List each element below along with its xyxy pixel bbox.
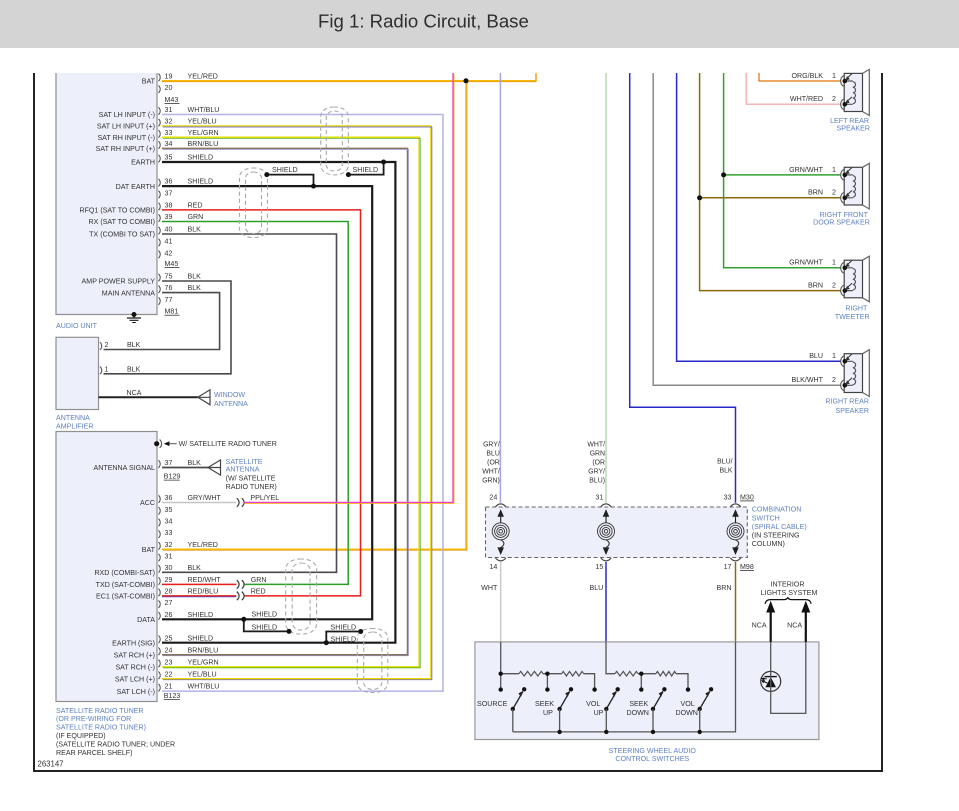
svg-text:22: 22	[165, 670, 173, 678]
tuner pin 28	[158, 589, 160, 597]
svg-text:BRN/BLU: BRN/BLU	[188, 646, 219, 654]
svg-text:B123: B123	[164, 692, 181, 700]
svg-text:SEEK: SEEK	[629, 700, 648, 708]
wire YEL/RED pin19 BAT	[162, 73, 536, 81]
wire GRY/WHT tuner pin36	[162, 502, 236, 504]
tuner pin 31	[158, 554, 160, 562]
svg-text:M81: M81	[165, 308, 179, 316]
junction YEL/RED	[464, 78, 469, 83]
shield tap row26 to capsule P	[244, 619, 289, 631]
tuner pin 35	[158, 507, 160, 515]
wire BLK pin75 to amp pin1	[104, 281, 232, 374]
shield capsule around pins38-40 inner	[246, 172, 262, 234]
svg-text:YEL/GRN: YEL/GRN	[188, 659, 219, 667]
wire ORG/BLK left rear spk pin1	[759, 73, 841, 81]
svg-text:SEEK: SEEK	[535, 700, 554, 708]
svg-text:36: 36	[165, 178, 173, 186]
junction shield tap capsule L	[264, 172, 269, 177]
svg-text:RED/BLU: RED/BLU	[188, 588, 219, 596]
svg-text:SAT RH INPUT (-): SAT RH INPUT (-)	[97, 134, 155, 142]
arrow NCA left	[770, 611, 772, 642]
amp pin 1	[100, 367, 102, 375]
switch VOL DOWN	[686, 687, 690, 691]
svg-text:DATA: DATA	[137, 616, 155, 624]
svg-text:WHT/BLU: WHT/BLU	[188, 683, 220, 691]
svg-text:INTERIOR: INTERIOR	[771, 581, 805, 589]
svg-text:RXD (COMBI-SAT): RXD (COMBI-SAT)	[94, 569, 155, 577]
svg-text:24: 24	[489, 493, 497, 501]
svg-text:23: 23	[165, 659, 173, 667]
svg-text:YEL/GRN: YEL/GRN	[188, 129, 219, 137]
shield capsule around rows28-30 inner	[292, 563, 310, 630]
svg-text:(OR: (OR	[592, 460, 605, 467]
svg-text:41: 41	[165, 238, 173, 246]
wire BRN branch rf door pin2	[700, 197, 841, 199]
svg-text:WHT/BLU: WHT/BLU	[188, 106, 220, 114]
junction rail 699.7	[698, 730, 702, 734]
tuner pin 32	[158, 542, 160, 550]
svg-text:GRN: GRN	[251, 576, 267, 584]
svg-text:MAIN ANTENNA: MAIN ANTENNA	[102, 289, 155, 297]
wire RED/WHT tuner pin29	[162, 583, 236, 585]
interior lights brace	[765, 597, 811, 604]
shield tap to pin35 wire	[348, 162, 383, 175]
svg-text:DOWN: DOWN	[626, 709, 648, 717]
wire interior lights U loop	[771, 642, 806, 714]
svg-text:34: 34	[165, 518, 173, 526]
svg-text:GRY/: GRY/	[588, 469, 605, 476]
wire BRN to tweeter pin2	[700, 73, 841, 291]
svg-text:36: 36	[165, 494, 173, 502]
svg-text:BLK: BLK	[188, 226, 202, 234]
wire BLU right rear spk pin1	[677, 73, 841, 361]
wire BLK/WHT right rear spk pin2	[653, 73, 841, 385]
svg-text:76: 76	[165, 284, 173, 292]
switch VOL UP	[592, 687, 596, 691]
svg-text:RIGHT: RIGHT	[845, 304, 868, 312]
tuner pin 24	[158, 648, 160, 656]
svg-text:BAT: BAT	[142, 546, 156, 554]
svg-text:BLK: BLK	[127, 341, 141, 349]
shield capsule around pins31-35 outer	[321, 107, 349, 175]
svg-text:VOL: VOL	[586, 700, 600, 708]
switch SEEK UP	[545, 687, 549, 691]
tuner pin 27	[158, 600, 160, 608]
tuner pin 26	[158, 612, 160, 620]
svg-text:YEL/RED: YEL/RED	[188, 72, 218, 80]
resistor R1	[519, 671, 543, 676]
wire WHT/RED left rear spk pin2	[746, 73, 841, 104]
svg-text:AMPLIFIER: AMPLIFIER	[56, 423, 93, 431]
right tweeter	[844, 260, 862, 298]
svg-text:RFQ1 (SAT TO COMBI): RFQ1 (SAT TO COMBI)	[79, 207, 155, 215]
svg-text:BLU: BLU	[589, 584, 603, 592]
svg-text:SAT LH INPUT (-): SAT LH INPUT (-)	[99, 111, 155, 119]
splice row28	[237, 592, 239, 601]
satellite radio tuner box	[56, 432, 157, 702]
junction pin36 wire	[311, 184, 316, 189]
bottom rail	[513, 642, 736, 732]
svg-text:(W/ SATELLITE: (W/ SATELLITE	[226, 475, 276, 483]
splice row36	[237, 498, 239, 507]
svg-text:31: 31	[165, 106, 173, 114]
wire RED pin38 to splice row28	[162, 210, 361, 596]
wire BLK pin40 to tuner pin30	[162, 234, 337, 572]
svg-text:263147: 263147	[38, 759, 64, 768]
right front door speaker	[844, 167, 862, 205]
svg-text:SWITCH: SWITCH	[752, 514, 780, 522]
svg-text:1: 1	[832, 259, 836, 267]
svg-text:1: 1	[832, 352, 836, 360]
audio pin 36	[158, 179, 160, 187]
svg-text:AMP POWER SUPPLY: AMP POWER SUPPLY	[82, 278, 156, 286]
junction capsule P tap	[287, 629, 292, 634]
wire SHIELD pin36 to tuner pin26	[162, 186, 372, 619]
svg-text:ACC: ACC	[140, 499, 155, 507]
svg-text:(IF EQUIPPED): (IF EQUIPPED)	[56, 732, 106, 740]
wire BRN M98 pin17	[735, 562, 737, 642]
svg-text:33: 33	[165, 529, 173, 537]
svg-text:DOWN: DOWN	[675, 709, 697, 717]
node w/ satellite radio tuner	[154, 441, 159, 446]
svg-text:SHIELD: SHIELD	[272, 166, 298, 174]
steering wheel switches box	[475, 642, 819, 740]
spiral cable pin 33-17	[730, 504, 740, 507]
svg-text:(SPIRAL CABLE): (SPIRAL CABLE)	[752, 523, 807, 531]
svg-text:PPL/YEL: PPL/YEL	[250, 494, 279, 502]
svg-text:M43: M43	[165, 96, 179, 104]
svg-text:(OR: (OR	[487, 460, 500, 467]
tuner pin 22	[158, 672, 160, 680]
svg-text:GRN): GRN)	[482, 478, 500, 485]
svg-text:RED/WHT: RED/WHT	[188, 576, 222, 584]
wire WHT M98 pin14	[500, 562, 502, 642]
svg-text:35: 35	[165, 154, 173, 162]
svg-text:SAT LH INPUT (+): SAT LH INPUT (+)	[97, 123, 155, 131]
amp pin 2	[100, 342, 102, 350]
junction row26 wire	[241, 617, 246, 622]
svg-text:DOOR SPEAKER: DOOR SPEAKER	[813, 218, 870, 226]
junction GRN/WHT	[721, 172, 726, 177]
svg-text:38: 38	[165, 202, 173, 210]
svg-text:WINDOW: WINDOW	[214, 391, 245, 399]
shield tap row25 to capsule Q	[326, 632, 360, 643]
svg-text:EARTH: EARTH	[131, 159, 155, 167]
svg-text:19: 19	[165, 72, 173, 80]
svg-text:M30: M30	[740, 493, 754, 501]
svg-text:37: 37	[165, 459, 173, 467]
wire NCA	[99, 396, 198, 398]
svg-text:BLK: BLK	[719, 468, 732, 475]
svg-text:UP: UP	[543, 709, 553, 717]
wire YEL/GRN pin33 to tuner pin23	[162, 137, 419, 667]
audio pin 77	[158, 297, 160, 305]
svg-text:33: 33	[724, 493, 732, 501]
wire RED/BLU tuner pin28	[162, 595, 236, 597]
junction rail 653	[651, 730, 655, 734]
svg-text:32: 32	[165, 118, 173, 126]
svg-text:15: 15	[595, 563, 603, 571]
svg-text:SHIELD: SHIELD	[188, 634, 214, 642]
svg-text:ANTENNA SIGNAL: ANTENNA SIGNAL	[94, 464, 156, 472]
svg-text:SPEAKER: SPEAKER	[836, 125, 870, 133]
audio pin 19	[158, 74, 160, 82]
svg-text:BLU: BLU	[809, 352, 823, 360]
resistor R4	[656, 671, 676, 676]
svg-text:GRN: GRN	[188, 213, 204, 221]
wire WHT/BLU pin31 to tuner pin21	[162, 115, 443, 692]
svg-text:SHIELD: SHIELD	[252, 623, 278, 631]
svg-text:BAT: BAT	[142, 78, 156, 86]
svg-text:SATELLITE: SATELLITE	[226, 458, 263, 466]
svg-text:AUDIO UNIT: AUDIO UNIT	[56, 322, 98, 330]
stub seek down contact	[640, 674, 642, 690]
svg-text:BLK: BLK	[188, 284, 202, 292]
tuner pin 34	[158, 519, 160, 527]
tuner pin 33	[158, 530, 160, 538]
svg-text:35: 35	[165, 506, 173, 514]
svg-text:SATELLITE RADIO TUNER): SATELLITE RADIO TUNER)	[56, 724, 146, 732]
junction rail 559.6	[557, 730, 561, 734]
svg-text:WHT/RED: WHT/RED	[790, 95, 823, 103]
combination switch box	[486, 507, 748, 558]
wire BLK tuner pin37	[162, 467, 208, 469]
svg-text:(SATELLITE RADIO TUNER; UNDER: (SATELLITE RADIO TUNER; UNDER	[56, 740, 175, 748]
audio pin 34	[158, 141, 160, 149]
wire WHT inside box	[500, 642, 502, 690]
junction shield tap capsule M	[346, 172, 351, 177]
junction R1-R2	[545, 672, 549, 676]
tuner pin 23	[158, 660, 160, 668]
splice row29	[237, 580, 239, 589]
svg-text:34: 34	[165, 140, 173, 148]
shield capsule around rows21-25 outer	[357, 629, 388, 693]
switch SEEK DOWN	[639, 687, 643, 691]
svg-text:26: 26	[165, 611, 173, 619]
svg-text:STEERING WHEEL AUDIO: STEERING WHEEL AUDIO	[609, 747, 697, 755]
svg-text:39: 39	[165, 213, 173, 221]
svg-text:33: 33	[165, 129, 173, 137]
svg-text:ANTENNA: ANTENNA	[214, 400, 248, 408]
svg-text:17: 17	[724, 563, 732, 571]
tuner pin 37	[158, 460, 160, 468]
audio unit U1 box	[56, 73, 157, 315]
svg-text:75: 75	[165, 273, 173, 281]
audio pin 76	[158, 285, 160, 293]
junction WHT rail	[499, 672, 503, 676]
svg-text:NCA: NCA	[127, 389, 142, 397]
svg-text:SHIELD: SHIELD	[188, 154, 214, 162]
audio pin 37	[158, 191, 160, 199]
svg-text:2: 2	[105, 341, 109, 349]
resistor R2	[562, 671, 584, 676]
junction row25 wire	[324, 640, 329, 645]
switch SOURCE	[499, 687, 503, 691]
svg-text:SAT LCH (+): SAT LCH (+)	[115, 676, 155, 684]
title bar	[0, 0, 959, 48]
svg-text:NCA: NCA	[752, 622, 767, 630]
svg-text:2: 2	[832, 376, 836, 384]
audio pin 38	[158, 203, 160, 211]
audio pin 42	[158, 251, 160, 259]
svg-text:GRN/WHT: GRN/WHT	[789, 259, 824, 267]
antenna symbol satellite	[208, 460, 221, 475]
diagram frame border	[34, 73, 882, 771]
wire BLU/BLK to M30 pin33	[630, 73, 736, 503]
svg-text:RED: RED	[188, 202, 203, 210]
audio pin 41	[158, 239, 160, 247]
svg-text:SAT LCH (-): SAT LCH (-)	[117, 688, 155, 696]
wire YEL/RED branch to tuner pin32	[162, 81, 466, 550]
svg-text:40: 40	[165, 226, 173, 234]
junction capsule Q tap	[358, 629, 363, 634]
svg-text:BRN: BRN	[808, 282, 823, 290]
svg-text:WHT: WHT	[481, 584, 498, 592]
svg-text:DAT EARTH: DAT EARTH	[116, 183, 155, 191]
svg-text:BRN: BRN	[808, 189, 823, 197]
svg-text:M45: M45	[165, 260, 179, 268]
svg-text:RED: RED	[251, 588, 266, 596]
svg-text:ANTENNA: ANTENNA	[226, 466, 260, 474]
svg-text:REAR PARCEL SHELF): REAR PARCEL SHELF)	[56, 749, 132, 757]
svg-text:SAT RCH (+): SAT RCH (+)	[114, 652, 155, 660]
wire WHT/GRN to M30 pin31	[605, 73, 607, 503]
svg-text:20: 20	[165, 84, 173, 92]
svg-text:BLK: BLK	[188, 459, 202, 467]
svg-text:SHIELD: SHIELD	[188, 611, 214, 619]
svg-text:27: 27	[165, 599, 173, 607]
svg-text:SHIELD: SHIELD	[331, 623, 357, 631]
shield capsule around rows21-25 inner	[364, 632, 382, 690]
svg-text:ORG/BLK: ORG/BLK	[791, 72, 823, 80]
svg-text:Fig 1: Radio Circuit, Base: Fig 1: Radio Circuit, Base	[318, 11, 529, 32]
diode lamp D1	[761, 671, 781, 691]
svg-text:24: 24	[165, 646, 173, 654]
tuner pin 30	[158, 565, 160, 573]
svg-text:SOURCE: SOURCE	[477, 700, 508, 708]
svg-text:21: 21	[165, 683, 173, 691]
svg-text:EARTH (SIG): EARTH (SIG)	[112, 639, 155, 647]
shield tap to pin36 wire	[267, 175, 314, 187]
audio pin 31	[158, 107, 160, 115]
svg-text:RX (SAT TO COMBI): RX (SAT TO COMBI)	[89, 218, 155, 226]
svg-text:14: 14	[489, 563, 497, 571]
svg-text:RADIO TUNER): RADIO TUNER)	[226, 483, 277, 491]
junction rail 606.3	[604, 730, 608, 734]
svg-text:BLU: BLU	[486, 451, 499, 458]
svg-text:25: 25	[165, 634, 173, 642]
tuner pin 21	[158, 684, 160, 692]
svg-text:TXD (SAT-COMBI): TXD (SAT-COMBI)	[96, 581, 155, 589]
svg-text:ANTENNA: ANTENNA	[56, 414, 90, 422]
svg-text:YEL/BLU: YEL/BLU	[188, 118, 217, 126]
antenna symbol window	[198, 390, 210, 405]
tuner pin 25	[158, 636, 160, 644]
svg-text:(IN STEERING: (IN STEERING	[752, 532, 800, 540]
svg-text:TWEETER: TWEETER	[835, 313, 870, 321]
svg-text:(OR PRE-WIRING FOR: (OR PRE-WIRING FOR	[56, 715, 131, 723]
svg-text:W/ SATELLITE RADIO TUNER: W/ SATELLITE RADIO TUNER	[179, 440, 277, 448]
spiral cable pin 24-14	[496, 504, 506, 507]
svg-text:TX (COMBI TO SAT): TX (COMBI TO SAT)	[89, 231, 155, 239]
stub seek up contact	[546, 674, 548, 690]
svg-text:37: 37	[165, 190, 173, 198]
shield capsule around pins38-40 outer	[240, 168, 268, 238]
svg-text:28: 28	[165, 588, 173, 596]
svg-text:BRN/BLU: BRN/BLU	[188, 140, 219, 148]
svg-text:SHIELD: SHIELD	[252, 611, 278, 619]
shield capsule around pins31-35 inner	[326, 111, 342, 171]
svg-text:GRN/WHT: GRN/WHT	[789, 166, 824, 174]
audio pin 32	[158, 119, 160, 127]
tuner pin 29	[158, 577, 160, 585]
svg-text:2: 2	[832, 189, 836, 197]
junction pin35 wire	[381, 160, 386, 165]
svg-text:SHIELD: SHIELD	[353, 166, 379, 174]
svg-text:BLK/WHT: BLK/WHT	[791, 376, 823, 384]
svg-text:29: 29	[165, 576, 173, 584]
svg-text:BLU): BLU)	[589, 478, 605, 485]
arrow NCA right	[805, 611, 807, 642]
wire GRN pin39 to splice row29	[162, 222, 348, 585]
svg-text:COLUMN): COLUMN)	[752, 540, 785, 548]
svg-text:1: 1	[832, 166, 836, 174]
svg-text:COMBINATION: COMBINATION	[752, 506, 802, 514]
audio pin 40	[158, 227, 160, 235]
svg-text:30: 30	[165, 564, 173, 572]
left rear speaker	[844, 73, 862, 111]
wire PPL/YEL	[244, 73, 454, 503]
svg-text:SPEAKER: SPEAKER	[835, 407, 869, 415]
svg-text:WHT/: WHT/	[587, 442, 605, 449]
svg-text:1: 1	[105, 365, 109, 373]
svg-text:BLK: BLK	[188, 564, 202, 572]
audio pin 33	[158, 130, 160, 138]
wire BRN/BLU pin34 to tuner pin24	[162, 148, 408, 654]
svg-text:NCA: NCA	[787, 622, 802, 630]
svg-text:UP: UP	[594, 709, 604, 717]
svg-text:CONTROL SWITCHES: CONTROL SWITCHES	[615, 755, 689, 763]
wire GRN/WHT to tweeter pin1	[724, 73, 841, 268]
svg-text:SAT RH INPUT (+): SAT RH INPUT (+)	[96, 145, 155, 153]
wire GRN/WHT branch rf door pin1	[724, 174, 841, 176]
audio pin 35	[158, 155, 160, 163]
svg-text:77: 77	[165, 296, 173, 304]
svg-text:SATELLITE RADIO TUNER: SATELLITE RADIO TUNER	[56, 707, 144, 715]
wire BLU inside box	[606, 642, 615, 674]
svg-text:2: 2	[832, 282, 836, 290]
audio pin 39	[158, 214, 160, 222]
svg-text:GRN: GRN	[590, 451, 605, 458]
svg-text:GRY/WHT: GRY/WHT	[188, 494, 222, 502]
svg-text:42: 42	[165, 249, 173, 257]
spiral cable pin 31-15	[601, 504, 611, 507]
audio pin 20	[158, 85, 160, 93]
svg-text:LIGHTS SYSTEM: LIGHTS SYSTEM	[761, 589, 818, 597]
wire GRY/BLU to M30 pin24	[499, 73, 501, 503]
svg-text:EC1 (SAT-COMBI): EC1 (SAT-COMBI)	[96, 593, 155, 601]
svg-text:YEL/BLU: YEL/BLU	[188, 670, 217, 678]
ground	[132, 312, 137, 317]
resistor R3	[615, 671, 638, 676]
wire BLK pin76 to amp pin2	[104, 293, 220, 350]
svg-text:BLK: BLK	[188, 273, 202, 281]
svg-text:BLU/: BLU/	[717, 459, 732, 466]
svg-text:1: 1	[832, 72, 836, 80]
wire SHIELD pin35 to tuner pin25	[162, 162, 395, 643]
svg-text:B129: B129	[164, 473, 181, 481]
svg-text:32: 32	[165, 541, 173, 549]
